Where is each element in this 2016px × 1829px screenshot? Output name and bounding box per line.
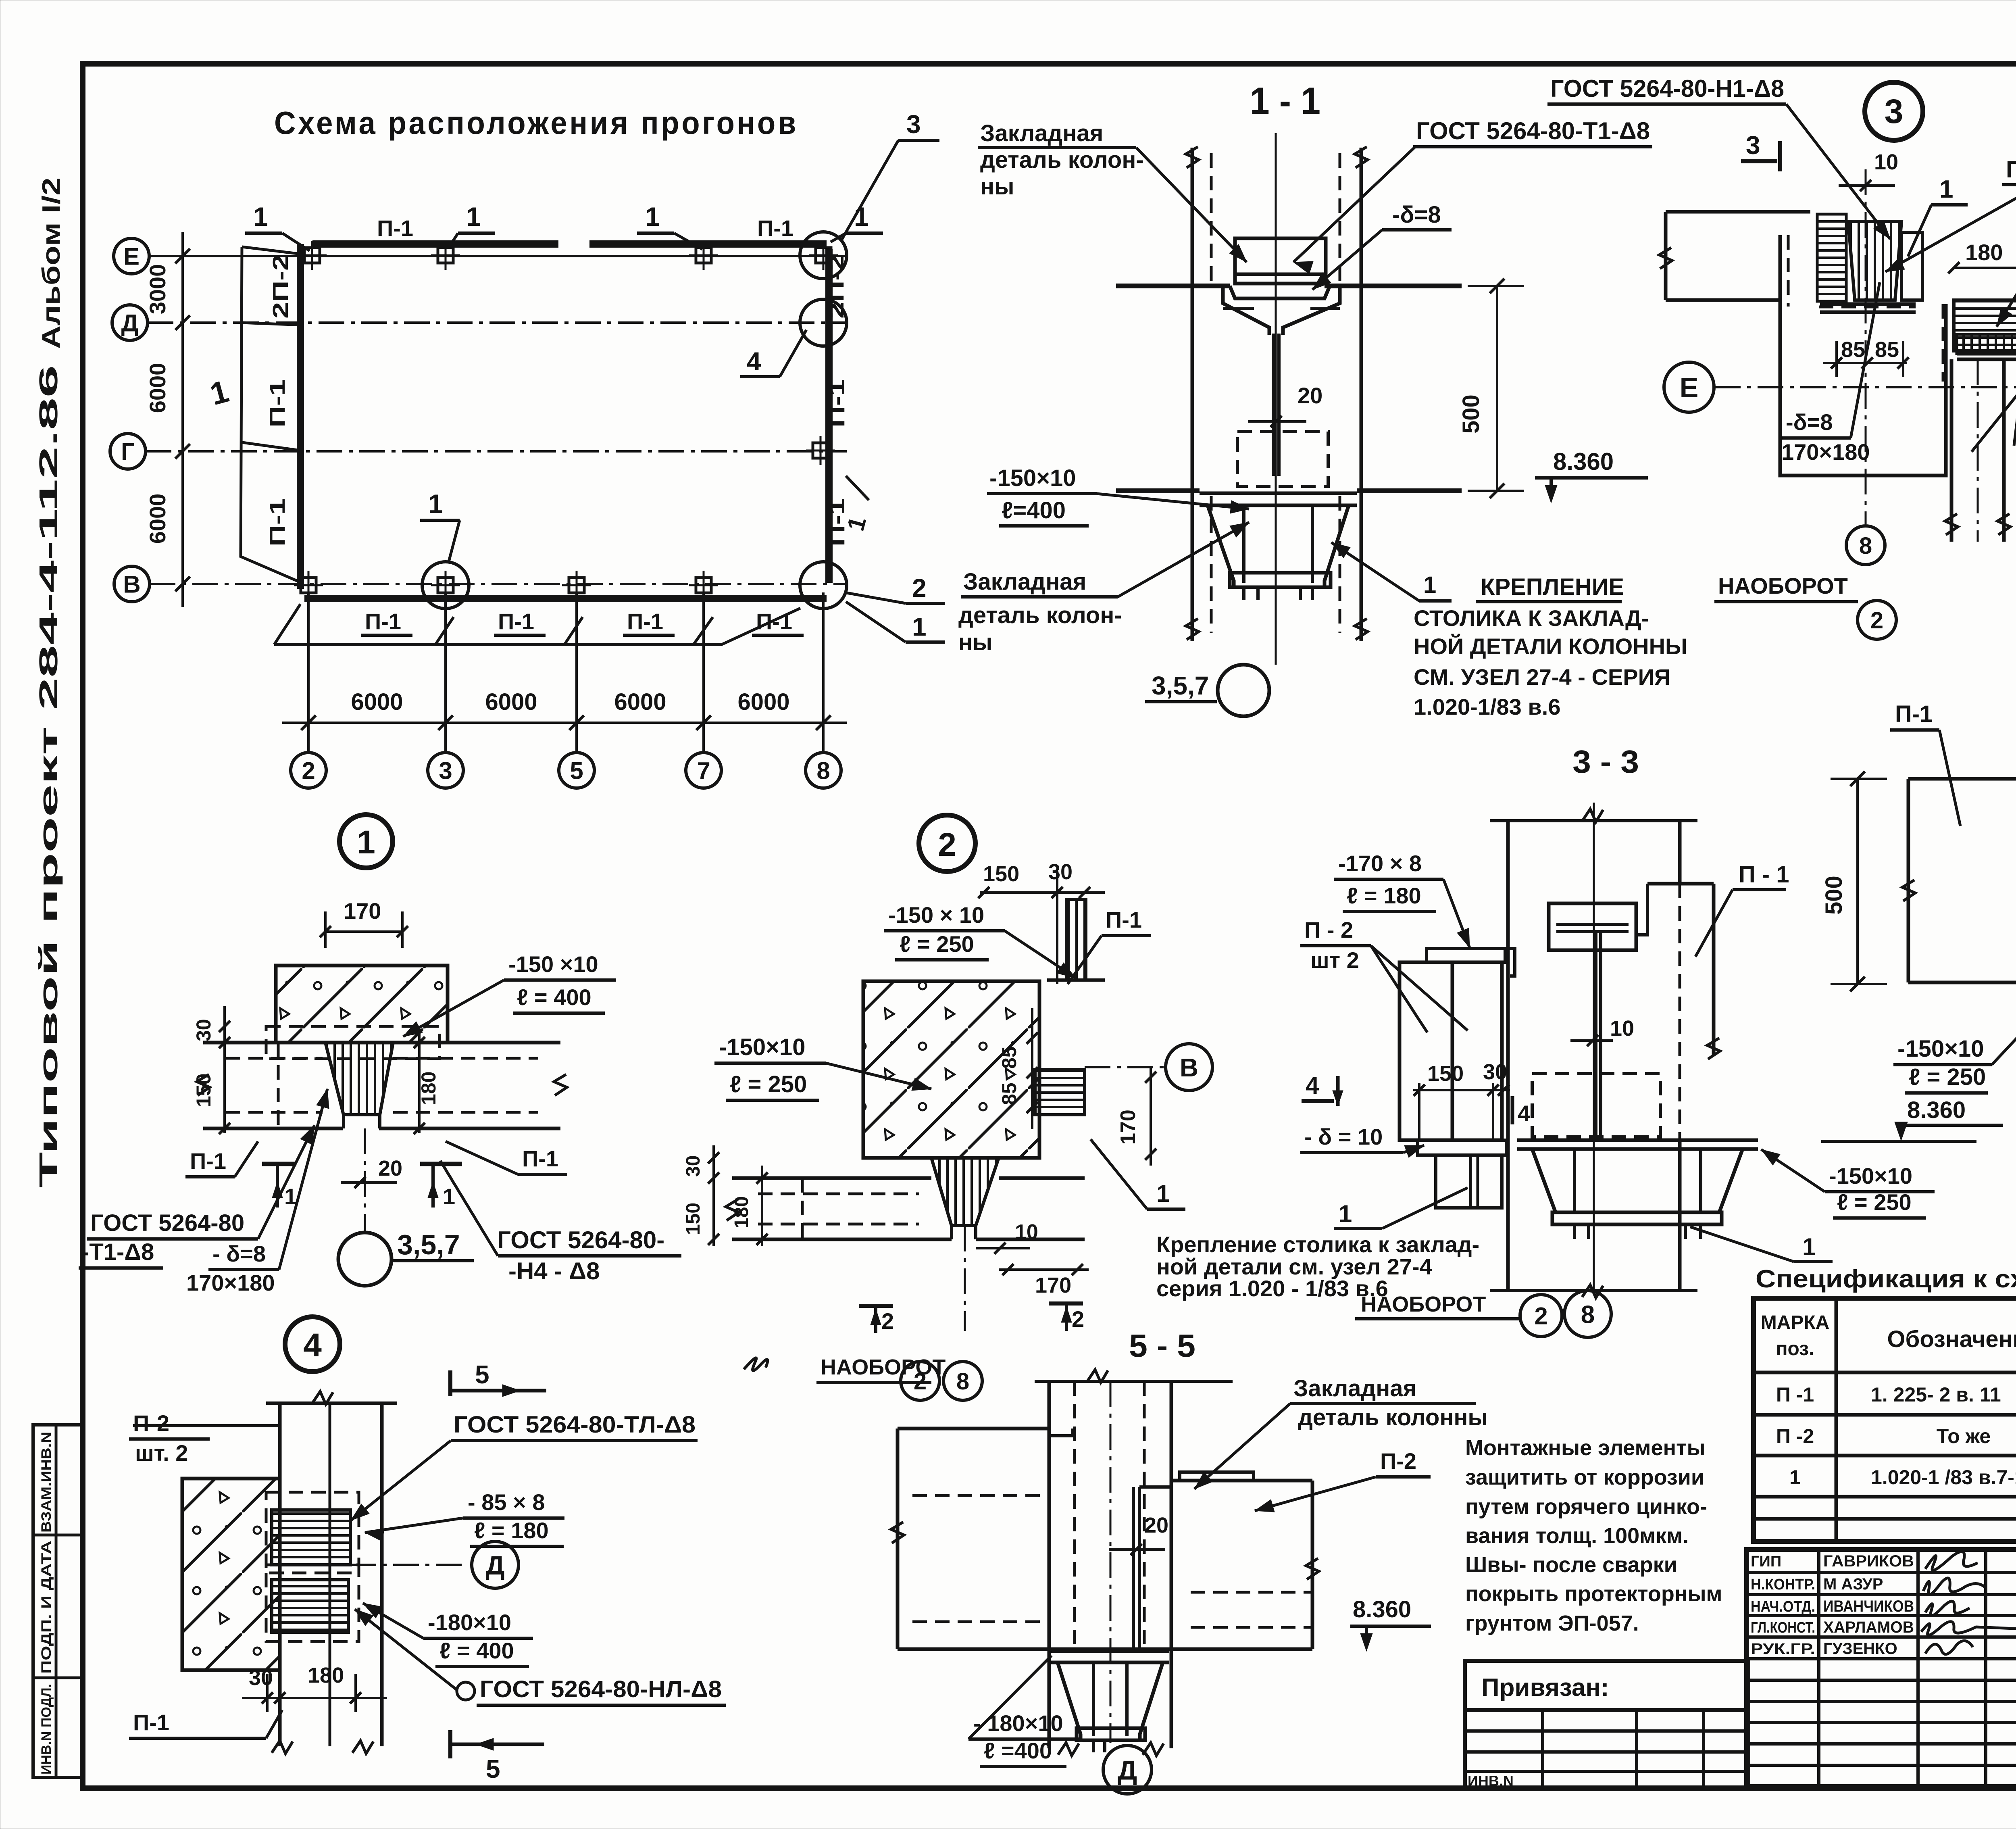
- 1-1 centerline: [1275, 133, 1277, 665]
- svg-text:170: 170: [1035, 1273, 1071, 1297]
- 5-5 axis D bubble: [1103, 1746, 1152, 1794]
- svg-text:1: 1: [1789, 1466, 1801, 1489]
- axis circle 7: [686, 753, 721, 788]
- svg-text:3000: 3000: [145, 264, 170, 315]
- svg-text:6000: 6000: [145, 494, 170, 544]
- svg-text:ГУЗЕНКО: ГУЗЕНКО: [1823, 1640, 1897, 1658]
- node3 weld plate horizontal hatch: [1817, 214, 1846, 301]
- svg-text:НАОБОРОТ: НАОБОРОТ: [821, 1355, 946, 1379]
- node3 beam from left: [1666, 210, 1810, 214]
- svg-text:Закладная: Закладная: [963, 569, 1086, 595]
- node3 axis E: [1664, 362, 1714, 412]
- svg-text:10: 10: [1015, 1220, 1038, 1244]
- svg-text:П-1: П-1: [365, 609, 401, 634]
- svg-text:-Н4 - Δ8: -Н4 - Δ8: [508, 1258, 600, 1285]
- svg-text:1: 1: [1802, 1233, 1816, 1260]
- left stamp strip: [33, 1425, 83, 1777]
- svg-text:6000: 6000: [737, 689, 789, 715]
- svg-text:3 - 3: 3 - 3: [1572, 744, 1639, 780]
- 5-5 column: [1048, 1381, 1051, 1748]
- node3 axis 8 bubble: [1846, 526, 1885, 565]
- node3 P-2 beams down: [1950, 359, 1954, 542]
- detail 2 bubble: [919, 815, 975, 872]
- node circle 2 at V-8: [800, 562, 847, 609]
- det1 hidden plate dash: [266, 1026, 439, 1059]
- column squares top row: [304, 248, 320, 263]
- det4 axis D: [350, 1564, 468, 1566]
- svg-text:1: 1: [1339, 1200, 1352, 1227]
- det2 web wedge: [931, 1158, 999, 1226]
- svg-text:1: 1: [1423, 572, 1436, 598]
- det2 beam band below: [732, 1176, 931, 1180]
- svg-text:ℓ = 400: ℓ = 400: [439, 1638, 514, 1663]
- svg-text:Обозначение: Обозначение: [1887, 1326, 2016, 1352]
- axis circle 5: [559, 753, 594, 788]
- title block signatures: [1747, 1550, 2016, 1787]
- svg-text:150: 150: [983, 862, 1019, 886]
- 3-3 centerline: [1593, 803, 1595, 1291]
- svg-text:П-1: П-1: [1895, 701, 1933, 727]
- svg-text:То же: То же: [1937, 1425, 1991, 1447]
- svg-text:ℓ = 250: ℓ = 250: [1837, 1189, 1912, 1215]
- svg-text:ГОСТ 5264-80-Т1-Δ8: ГОСТ 5264-80-Т1-Δ8: [2006, 156, 2016, 183]
- det1 centerline and 20: [364, 1128, 366, 1232]
- det2 dims 30 150 180 left: [712, 1145, 715, 1246]
- svg-text:ℓ = 180: ℓ = 180: [1347, 883, 1421, 908]
- svg-text:ГОСТ 5264-80-НЛ-Δ8: ГОСТ 5264-80-НЛ-Δ8: [480, 1676, 722, 1702]
- det4 section mark 5 top: [448, 1370, 452, 1396]
- svg-text:Н.КОНТР.: Н.КОНТР.: [1751, 1576, 1815, 1593]
- det4 label GOST 5264-80-NL-d8: [457, 1682, 475, 1700]
- svg-text:-δ=8: -δ=8: [1786, 409, 1833, 435]
- svg-text:Швы- после сварки: Швы- после сварки: [1465, 1553, 1677, 1577]
- svg-text:5: 5: [475, 1360, 489, 1389]
- det4 column: [278, 1403, 282, 1746]
- svg-text:серия 1.020 - 1/83 в.6: серия 1.020 - 1/83 в.6: [1156, 1276, 1388, 1301]
- svg-text:ВЗАМ.ИНВ.N: ВЗАМ.ИНВ.N: [39, 1432, 54, 1533]
- svg-text:ПОДП. И ДАТА: ПОДП. И ДАТА: [39, 1541, 54, 1674]
- svg-text:1: 1: [1156, 1180, 1170, 1207]
- svg-text:ны: ны: [958, 629, 993, 655]
- svg-text:П-1: П-1: [757, 215, 793, 241]
- svg-text:защитить от коррозии: защитить от коррозии: [1465, 1465, 1704, 1489]
- det1 node ref circle 3,5,7: [338, 1233, 392, 1286]
- svg-text:КРЕПЛЕНИЕ: КРЕПЛЕНИЕ: [1481, 574, 1624, 600]
- svg-text:ХАРЛАМОВ: ХАРЛАМОВ: [1823, 1618, 1914, 1636]
- axis V circle: [114, 566, 150, 602]
- svg-text:ИВАНЧИКОВ: ИВАНЧИКОВ: [1823, 1598, 1914, 1615]
- svg-text:1: 1: [645, 202, 660, 231]
- axis G line: [146, 450, 847, 453]
- svg-text:грунтом ЭП-057.: грунтом ЭП-057.: [1465, 1611, 1639, 1635]
- svg-text:2: 2: [302, 757, 315, 784]
- det1 section marks 1: [262, 1162, 296, 1166]
- det1 beam band: [203, 1041, 325, 1045]
- svg-text:ГИП: ГИП: [1751, 1553, 1781, 1570]
- 3-3 P-2 top plate notch: [1505, 949, 1515, 976]
- det1 concrete column: [276, 966, 448, 1043]
- det4 beam from left: [133, 1424, 280, 1427]
- svg-text:Типовой проект 284-4-112.86: Типовой проект 284-4-112.86: [34, 365, 63, 1188]
- svg-text:-170 × 8: -170 × 8: [1338, 851, 1422, 876]
- svg-text:шт. 2: шт. 2: [135, 1440, 188, 1466]
- girder line axis 2 (left): [297, 244, 304, 589]
- svg-text:500: 500: [1458, 394, 1484, 434]
- svg-text:85: 85: [1841, 338, 1865, 362]
- svg-text:2: 2: [938, 826, 956, 863]
- 3-3 support under P-2: [1436, 1155, 1502, 1208]
- svg-text:-180×10: -180×10: [428, 1610, 511, 1635]
- svg-text:ИНВ.N: ИНВ.N: [1468, 1773, 1514, 1789]
- 1-1 slab bottom line: [1116, 488, 1200, 493]
- svg-text:1.020-1 /83 в.7-1: 1.020-1 /83 в.7-1: [1871, 1466, 2016, 1489]
- svg-text:30: 30: [192, 1019, 215, 1041]
- svg-text:Д: Д: [485, 1550, 504, 1580]
- svg-text:Е: Е: [1680, 372, 1699, 403]
- svg-text:170: 170: [344, 898, 381, 924]
- svg-text:30: 30: [249, 1666, 273, 1690]
- svg-text:ℓ = 250: ℓ = 250: [730, 1071, 807, 1097]
- girder line axis 8 (right): [825, 249, 833, 583]
- svg-text:2П-2: 2П-2: [269, 254, 293, 319]
- svg-text:8: 8: [816, 757, 830, 784]
- svg-text:СМ. УЗЕЛ 27-4 - СЕРИЯ: СМ. УЗЕЛ 27-4 - СЕРИЯ: [1414, 664, 1670, 690]
- svg-text:3: 3: [1885, 92, 1904, 130]
- bracket leader 1 (left spans): [241, 247, 302, 583]
- svg-text:- 180×10: - 180×10: [973, 1710, 1063, 1736]
- svg-text:ГЛ.КОНСТ.: ГЛ.КОНСТ.: [1751, 1619, 1815, 1636]
- svg-text:ГОСТ 5264-80-Т1-Δ8: ГОСТ 5264-80-Т1-Δ8: [1416, 117, 1650, 144]
- svg-text:2: 2: [914, 1368, 927, 1395]
- svg-text:П-2: П-2: [1380, 1448, 1416, 1474]
- svg-text:-150×10: -150×10: [1897, 1036, 1984, 1062]
- privyazan box: [1465, 1661, 1748, 1710]
- svg-text:3,5,7: 3,5,7: [1152, 671, 1209, 700]
- det2 dims 85 85: [1031, 1008, 1033, 1129]
- svg-text:150: 150: [683, 1203, 704, 1235]
- svg-text:8.360: 8.360: [1353, 1596, 1411, 1623]
- svg-text:Д: Д: [1118, 1755, 1137, 1785]
- svg-text:НОЙ ДЕТАЛИ КОЛОННЫ: НОЙ ДЕТАЛИ КОЛОННЫ: [1414, 634, 1687, 659]
- node3 plate over P-2 hatched: [1954, 300, 2016, 351]
- svg-text:ℓ=400: ℓ=400: [1002, 497, 1066, 523]
- svg-text:6000: 6000: [351, 689, 403, 715]
- svg-text:-Т1-Δ8: -Т1-Δ8: [81, 1239, 154, 1265]
- svg-text:4: 4: [303, 1327, 322, 1364]
- svg-text:8.360: 8.360: [1907, 1097, 1966, 1123]
- node3 base plate under wedge: [1820, 302, 1916, 306]
- svg-text:6000: 6000: [614, 689, 666, 715]
- svg-text:180: 180: [308, 1663, 344, 1687]
- svg-text:- δ = 10: - δ = 10: [1304, 1124, 1383, 1149]
- svg-text:- δ=8: - δ=8: [212, 1241, 266, 1266]
- svg-text:П-1: П-1: [265, 498, 289, 546]
- svg-text:85: 85: [998, 1046, 1020, 1069]
- svg-text:П -1: П -1: [1776, 1383, 1814, 1406]
- svg-text:ℓ =400: ℓ =400: [984, 1738, 1052, 1763]
- svg-text:ГОСТ 5264-80-ТЛ-Δ8: ГОСТ 5264-80-ТЛ-Δ8: [454, 1412, 696, 1438]
- det2 concrete column: [863, 981, 1039, 1158]
- svg-text:170×180: 170×180: [186, 1270, 275, 1295]
- svg-text:10: 10: [1874, 150, 1898, 174]
- svg-text:Закладная: Закладная: [980, 120, 1103, 146]
- girder line axis V (bottom): [304, 595, 827, 602]
- svg-text:НАЧ.ОТД.: НАЧ.ОТД.: [1751, 1598, 1815, 1615]
- 3-3 web: [1594, 932, 1597, 1137]
- 1-1 embedded plate: [1235, 238, 1326, 284]
- 1-1 column faces: [1191, 148, 1194, 641]
- 5-5 step plate: [1049, 1429, 1073, 1436]
- svg-text:путем горячего цинко-: путем горячего цинко-: [1465, 1495, 1707, 1519]
- svg-text:П-1: П-1: [133, 1710, 169, 1735]
- svg-text:1: 1: [428, 489, 443, 519]
- det1 dims 30 150 left: [223, 1006, 226, 1133]
- svg-text:ℓ = 250: ℓ = 250: [1909, 1064, 1986, 1090]
- bottom dimension line: [282, 722, 847, 724]
- axis D line: [148, 321, 847, 324]
- svg-text:3,5,7: 3,5,7: [397, 1229, 460, 1260]
- svg-text:ℓ = 250: ℓ = 250: [900, 931, 974, 957]
- svg-text:ИНВ.N ПОДЛ.: ИНВ.N ПОДЛ.: [39, 1684, 54, 1775]
- svg-text:П-1: П-1: [377, 215, 413, 241]
- column verticals to bottom axis circles: [307, 592, 310, 753]
- 5-5 centerline: [1110, 1381, 1112, 1743]
- svg-text:ℓ = 180: ℓ = 180: [474, 1518, 549, 1543]
- svg-text:Привязан:: Привязан:: [1481, 1674, 1609, 1702]
- node3 axis 8 line: [1865, 169, 1867, 524]
- 5-5 web: [1132, 1487, 1135, 1649]
- detail 4 bubble: [285, 1317, 340, 1372]
- girder line axis E (top): [312, 240, 558, 248]
- svg-text:1 - 1: 1 - 1: [1250, 79, 1320, 122]
- svg-text:покрыть протекторным: покрыть протекторным: [1465, 1582, 1722, 1606]
- 5-5 right beam P-2: [1171, 1479, 1312, 1483]
- svg-text:6000: 6000: [145, 363, 170, 413]
- svg-text:500: 500: [1821, 876, 1847, 915]
- svg-text:Закладная: Закладная: [1293, 1375, 1416, 1401]
- svg-text:- 85 × 8: - 85 × 8: [468, 1489, 545, 1515]
- det2 centerline: [964, 1226, 966, 1331]
- vertical dimension line: [181, 232, 184, 607]
- detail 1 bubble: [339, 815, 393, 868]
- svg-text:30: 30: [1048, 860, 1073, 884]
- svg-text:3: 3: [1746, 131, 1760, 160]
- svg-text:2: 2: [881, 1308, 894, 1334]
- svg-text:1: 1: [253, 202, 268, 231]
- svg-text:150: 150: [192, 1074, 215, 1107]
- svg-text:-150×10: -150×10: [989, 465, 1076, 491]
- svg-text:2: 2: [912, 574, 927, 603]
- 1-1 hidden column edges: [1210, 153, 1213, 282]
- svg-text:4: 4: [1518, 1101, 1530, 1126]
- bottom bracket: [274, 643, 722, 646]
- svg-text:М АЗУР: М АЗУР: [1823, 1575, 1883, 1593]
- axis E line: [149, 255, 847, 257]
- svg-text:Д: Д: [121, 310, 139, 337]
- svg-text:П-1: П-1: [190, 1148, 226, 1174]
- node circle 1 at V-3: [422, 562, 469, 609]
- det2 section marks 2: [859, 1304, 893, 1308]
- svg-text:-150×10: -150×10: [1829, 1163, 1912, 1189]
- svg-text:РУК.ГР.: РУК.ГР.: [1751, 1641, 1815, 1658]
- svg-text:поз.: поз.: [1776, 1338, 1814, 1360]
- svg-text:П - 1: П - 1: [1739, 861, 1789, 888]
- svg-text:1: 1: [443, 1184, 455, 1209]
- det4 plates hatched: [272, 1510, 350, 1565]
- node3 wedge vertical hatch: [1848, 221, 1901, 300]
- svg-text:2: 2: [1534, 1303, 1547, 1330]
- svg-text:В: В: [1180, 1053, 1198, 1082]
- svg-text:ГОСТ 5264-80: ГОСТ 5264-80: [90, 1210, 244, 1236]
- axis V line: [150, 583, 847, 585]
- svg-text:НАОБОРОТ: НАОБОРОТ: [1361, 1292, 1486, 1316]
- axis circle 2: [291, 753, 326, 788]
- svg-text:П-1: П-1: [498, 609, 534, 634]
- svg-text:8: 8: [1581, 1301, 1595, 1328]
- node circle 3 at E-8: [800, 232, 847, 279]
- svg-text:деталь колон-: деталь колон-: [958, 602, 1122, 628]
- node3 small plate right: [1901, 232, 1922, 300]
- svg-text:ГАВРИКОВ: ГАВРИКОВ: [1823, 1552, 1914, 1570]
- 3-3 right beam P-1: [1647, 882, 1714, 886]
- svg-text:Альбом I/2: Альбом I/2: [37, 177, 65, 349]
- axis E circle: [114, 238, 149, 274]
- svg-text:3: 3: [906, 110, 921, 139]
- 1-1 hidden bottom plate: [1237, 432, 1328, 486]
- svg-text:Е: Е: [123, 243, 140, 270]
- 1-1 slab top line: [1116, 284, 1230, 288]
- det2 embedded plate right hatched: [1035, 1070, 1085, 1115]
- svg-text:ГОСТ 5264-80-: ГОСТ 5264-80-: [497, 1226, 664, 1253]
- 5-5 left beam P-1: [898, 1427, 1049, 1431]
- svg-text:Крепление столика к заклад-: Крепление столика к заклад-: [1156, 1232, 1479, 1257]
- svg-text:-150×10: -150×10: [719, 1034, 805, 1060]
- 3-3 column faces: [1506, 821, 1510, 1291]
- svg-text:170: 170: [1116, 1109, 1140, 1145]
- svg-text:180: 180: [731, 1196, 752, 1228]
- svg-text:3: 3: [439, 757, 452, 784]
- svg-text:П-1: П-1: [522, 1146, 558, 1171]
- svg-text:5 - 5: 5 - 5: [1129, 1328, 1195, 1364]
- det2 plate end vertical hatch: [1066, 899, 1086, 980]
- det1 dim 180 right: [418, 1032, 421, 1133]
- svg-text:П -2: П -2: [1776, 1425, 1814, 1447]
- 3-3 dashed plate center: [1532, 1074, 1660, 1137]
- axis G circle: [110, 434, 146, 469]
- svg-text:СТОЛИКА К ЗАКЛАД-: СТОЛИКА К ЗАКЛАД-: [1414, 605, 1649, 631]
- svg-text:180: 180: [1965, 240, 2003, 265]
- svg-text:1. 225- 2 в. 11: 1. 225- 2 в. 11: [1871, 1383, 2001, 1406]
- svg-text:-δ=8: -δ=8: [1392, 202, 1441, 228]
- svg-text:20: 20: [378, 1156, 402, 1180]
- svg-text:шт 2: шт 2: [1310, 947, 1359, 973]
- svg-text:П-1: П-1: [627, 609, 663, 634]
- 2-2 beam left: [1908, 777, 2016, 781]
- svg-text:5: 5: [570, 757, 583, 784]
- det2 axis V: [1166, 1044, 1212, 1091]
- svg-text:1: 1: [466, 202, 481, 231]
- svg-text:В: В: [123, 571, 140, 598]
- svg-text:85: 85: [1875, 338, 1899, 362]
- svg-text:1.020-1/83 в.6: 1.020-1/83 в.6: [1414, 694, 1560, 720]
- svg-text:1: 1: [357, 824, 375, 861]
- 3-3 base plate under P-2: [1418, 1140, 1506, 1155]
- svg-text:Схема расположения прогонов: Схема расположения прогонов: [274, 105, 798, 141]
- 1-1 I-beam top flange: [1223, 288, 1269, 335]
- svg-text:1: 1: [1939, 175, 1953, 203]
- svg-text:8: 8: [1859, 533, 1872, 559]
- svg-text:4: 4: [747, 347, 761, 376]
- svg-text:Спецификация к схеме распо: Спецификация к схеме расположения прогон…: [1756, 1265, 2016, 1293]
- svg-text:Монтажные элементы: Монтажные элементы: [1465, 1436, 1706, 1460]
- 1-1 support table: [1200, 492, 1357, 495]
- column squares bottom row: [301, 578, 316, 593]
- det4 concrete block: [182, 1479, 280, 1670]
- svg-text:1: 1: [912, 612, 927, 641]
- specification table grid: [1754, 1298, 2016, 1541]
- svg-text:ℓ = 400: ℓ = 400: [517, 984, 591, 1010]
- svg-text:П-2: П-2: [133, 1410, 169, 1436]
- det2 scribble: [744, 1358, 768, 1371]
- 3-3 support table center: [1517, 1139, 1758, 1142]
- svg-text:П-1: П-1: [265, 379, 289, 428]
- axis circle 8: [806, 753, 841, 788]
- svg-text:4: 4: [1306, 1072, 1319, 1099]
- svg-text:2: 2: [1072, 1306, 1084, 1332]
- svg-text:НАОБОРОТ: НАОБОРОТ: [1718, 573, 1848, 599]
- 2-2 dim 500: [1856, 779, 1859, 984]
- svg-text:деталь колон-: деталь колон-: [980, 147, 1144, 173]
- svg-text:МАРКА: МАРКА: [1761, 1312, 1830, 1333]
- svg-text:П-1: П-1: [1106, 907, 1142, 932]
- node circle 4 at D-8: [800, 299, 847, 346]
- svg-text:2П-2: 2П-2: [824, 254, 848, 319]
- det1 web wedge hatched: [325, 1043, 393, 1115]
- svg-text:деталь колонны: деталь колонны: [1298, 1404, 1488, 1431]
- svg-text:6000: 6000: [485, 689, 537, 715]
- svg-text:170×180: 170×180: [1781, 439, 1870, 465]
- svg-text:180: 180: [417, 1072, 440, 1105]
- 1-1 dim 500: [1496, 286, 1498, 491]
- svg-text:Г: Г: [121, 438, 135, 465]
- svg-text:150: 150: [1427, 1062, 1464, 1086]
- 3-3 embedded plate: [1549, 903, 1636, 950]
- svg-text:П - 2: П - 2: [1304, 917, 1353, 943]
- svg-text:20: 20: [1297, 383, 1322, 408]
- svg-text:30: 30: [1483, 1060, 1507, 1084]
- svg-text:8: 8: [956, 1368, 969, 1395]
- svg-text:7: 7: [697, 757, 710, 784]
- svg-text:ГОСТ 5264-80-Н1-Δ8: ГОСТ 5264-80-Н1-Δ8: [1550, 75, 1784, 102]
- svg-text:вания толщ. 100мкм.: вания толщ. 100мкм.: [1465, 1524, 1689, 1548]
- svg-text:85: 85: [998, 1082, 1020, 1105]
- svg-text:10: 10: [1610, 1016, 1634, 1041]
- node3 column plan outline: [1780, 235, 1946, 475]
- svg-text:П-1: П-1: [825, 379, 849, 428]
- 5-5 bracket: [1051, 1650, 1169, 1653]
- svg-text:5: 5: [486, 1754, 500, 1783]
- det4 section mark 5 bottom: [448, 1730, 452, 1758]
- svg-text:ны: ны: [980, 173, 1014, 200]
- svg-text:8.360: 8.360: [1553, 448, 1614, 475]
- svg-text:-150 ×10: -150 ×10: [508, 951, 598, 977]
- node 3 bubble: [1865, 82, 1923, 140]
- svg-text:-150 × 10: -150 × 10: [888, 902, 984, 928]
- det2 dim 170: [999, 1268, 1089, 1271]
- axis D circle: [112, 305, 148, 340]
- svg-text:2: 2: [1870, 607, 1883, 634]
- svg-text:30: 30: [683, 1155, 704, 1177]
